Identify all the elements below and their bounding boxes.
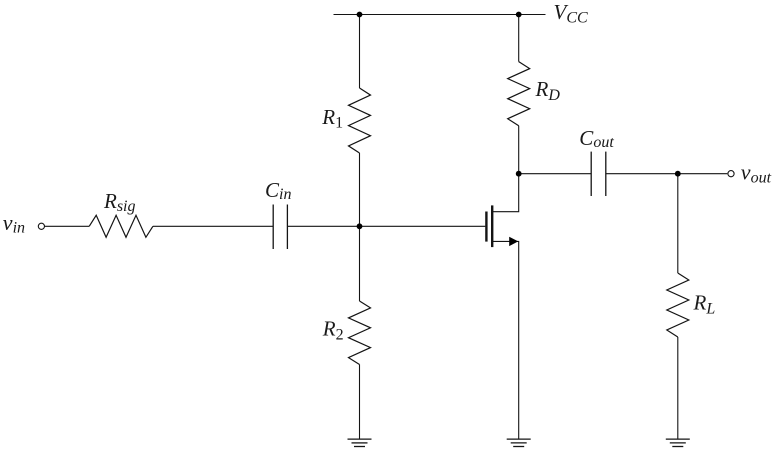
svg-text:Cout: Cout xyxy=(579,126,614,151)
svg-text:R1: R1 xyxy=(321,105,343,132)
svg-text:R2: R2 xyxy=(322,317,344,344)
svg-text:RD: RD xyxy=(535,77,561,104)
svg-text:RL: RL xyxy=(693,291,716,318)
svg-text:vout: vout xyxy=(741,159,772,186)
svg-text:Cin: Cin xyxy=(265,178,291,203)
svg-text:VCC: VCC xyxy=(554,0,589,26)
svg-text:vin: vin xyxy=(3,210,25,237)
svg-text:Rsig: Rsig xyxy=(103,189,136,215)
